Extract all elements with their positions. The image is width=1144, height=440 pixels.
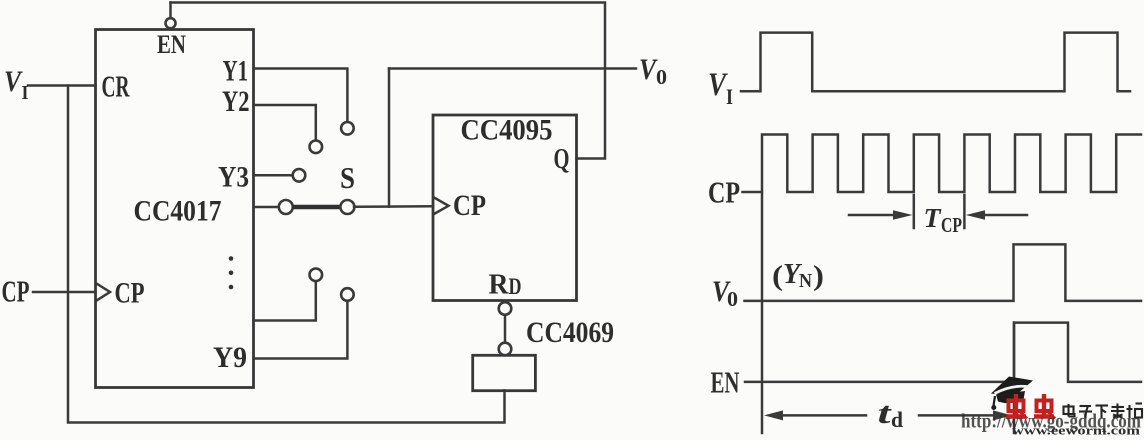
svg-text:d: d: [891, 407, 903, 432]
wire RD bubble to inverter bubble: [504, 315, 507, 343]
svg-text:CP: CP: [2, 274, 30, 309]
watermark graduation cap: [991, 377, 1033, 411]
TCP left arrow: [849, 214, 896, 217]
wire V0 output run: [389, 67, 636, 70]
svg-text:I: I: [726, 84, 733, 109]
wire CP lead to CC4017 clock pin: [33, 291, 96, 294]
clock triangle CC4017 CP: [97, 284, 111, 301]
IC U1 CC4017 box: [96, 30, 254, 388]
watermark dark CJK site name: [1064, 404, 1143, 419]
tick t=0 vertical line: [761, 192, 764, 433]
switch wiper contact circle left: [279, 200, 293, 214]
svg-text:CC4095: CC4095: [461, 114, 553, 147]
svg-text:www.eeworm.com: www.eeworm.com: [1012, 424, 1141, 436]
watermark red characters (chong chong): [1006, 394, 1055, 419]
switch wiper bar (thick): [293, 205, 342, 209]
wire S to CP of CC4095: [354, 205, 433, 208]
svg-text:CR: CR: [102, 69, 130, 104]
switch contact circle (Y1): [341, 122, 354, 135]
tick EN rise extended (td right boundary): [1013, 323, 1016, 433]
svg-text:EN: EN: [711, 365, 740, 400]
TCP dimension tick left: [913, 195, 916, 228]
svg-text:D: D: [509, 274, 522, 299]
svg-text:N: N: [799, 270, 812, 292]
svg-text:CP: CP: [941, 213, 962, 237]
wire unnamed pin (Y8) to switch contact: [254, 281, 316, 321]
td left arrow: [764, 410, 783, 420]
svg-text:Q: Q: [554, 143, 570, 175]
wire top feedback run to Q of CC4095: [171, 3, 606, 159]
svg-text:CP: CP: [115, 277, 145, 310]
wire S stub from CC4017: [254, 206, 280, 209]
IC U2 CC4095 box: [433, 115, 577, 301]
waveform CP: [743, 135, 1142, 193]
clock triangle CC4095 CP: [434, 198, 449, 215]
svg-text:R: R: [489, 269, 510, 301]
svg-text:): ): [813, 260, 824, 292]
svg-text:T: T: [924, 203, 943, 233]
wire junction up from S line to V0 run: [388, 69, 391, 207]
wire Y3 pin: [254, 174, 293, 177]
svg-text:S: S: [340, 160, 355, 195]
svg-text:Y9: Y9: [213, 341, 247, 374]
wire Y9 pin to switch contact: [254, 301, 348, 359]
wire VI to CR pin: [28, 84, 96, 87]
waveform EN: [745, 323, 1141, 382]
svg-text:Y1: Y1: [223, 55, 249, 88]
switch contact circle (Y9): [341, 288, 354, 301]
wire Y1 pin to switch contact: [254, 69, 348, 122]
svg-text:Y3: Y3: [218, 161, 249, 194]
svg-text:EN: EN: [157, 30, 186, 59]
waveform VI: [741, 33, 1130, 92]
wire VI branch down, bottom run, up to CC4069 input: [68, 86, 505, 423]
td right arrow: [919, 414, 995, 417]
wire EN stub up: [169, 3, 172, 18]
RD pin bubble: [499, 302, 512, 315]
TCP dimension tick right: [963, 195, 966, 228]
svg-text:0: 0: [656, 65, 667, 89]
svg-text:CP: CP: [453, 189, 486, 222]
wire Y2 pin to switch contact: [254, 105, 316, 140]
inverter output bubble: [499, 343, 512, 356]
svg-text:CC4069: CC4069: [526, 316, 614, 349]
svg-text:(: (: [772, 260, 783, 292]
switch wiper contact circle right (under S): [340, 200, 354, 214]
TCP right arrow: [983, 214, 1027, 217]
svg-text:0: 0: [727, 287, 738, 311]
EN bubble on top of CC4017: [166, 18, 176, 28]
svg-text:CC4017: CC4017: [134, 195, 222, 228]
vertical ellipsis dots inside CC4017: [229, 256, 234, 261]
waveform V0: [745, 244, 1142, 301]
switch contact circle (lower left): [310, 269, 323, 282]
svg-text:CP: CP: [708, 175, 740, 210]
switch contact circle (Y2): [310, 141, 323, 154]
switch contact circle (Y3): [293, 169, 306, 182]
gate U3 CC4069 inverter box: [473, 355, 536, 390]
svg-text:Y2: Y2: [222, 85, 250, 118]
